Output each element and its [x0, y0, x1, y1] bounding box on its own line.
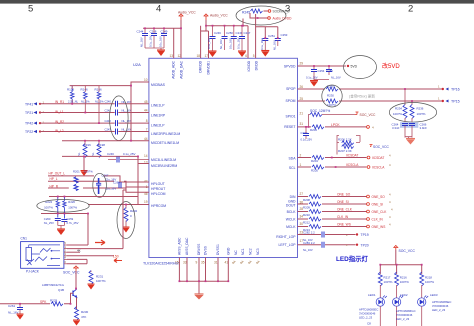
- capacitor C267 (series): [96, 174, 116, 195]
- svg-text:SOC_VCC: SOC_VCC: [399, 249, 416, 253]
- svg-text:LED_2_23: LED_2_23: [396, 317, 410, 321]
- resistor R230 emitter: [75, 307, 89, 321]
- svg-text:IICSDAT: IICSDAT: [346, 153, 358, 157]
- svg-text:LEFT_LOP: LEFT_LOP: [279, 243, 297, 247]
- svg-text:IN_R2: IN_R2: [55, 120, 64, 124]
- svg-text:LED3: LED3: [430, 293, 438, 297]
- svg-text:RIGHT_LOP: RIGHT_LOP: [276, 235, 296, 239]
- svg-text:C253: C253: [281, 33, 288, 37]
- annotation red arrow 2: [113, 255, 122, 263]
- svg-text:NC1: NC1: [241, 248, 245, 255]
- wire SPOP row: [298, 88, 443, 90]
- svg-text:IICSDAT: IICSDAT: [372, 156, 384, 160]
- ellipse highlight around C267: [93, 173, 107, 197]
- svg-text:27: 27: [300, 192, 304, 196]
- wire jack row C: [67, 251, 80, 253]
- svg-text:31: 31: [300, 122, 304, 126]
- svg-text:26: 26: [300, 85, 304, 89]
- annotation ellipse swap resistor: [236, 6, 292, 25]
- wire HPRCOM row: [88, 204, 149, 206]
- svg-text:29: 29: [300, 62, 304, 66]
- connector CN1 PJ-JACK: [21, 237, 64, 274]
- wire junctions: [19, 17, 423, 305]
- wire ground bus horizontal: [179, 280, 228, 282]
- svg-text:10K?%: 10K?%: [96, 279, 106, 283]
- svg-text:R212: R212: [303, 220, 310, 224]
- wire SPOM row: [298, 100, 443, 102]
- resistor R126: [67, 86, 79, 104]
- svg-text:4K: 4K: [77, 249, 81, 253]
- title bar: [0, 0, 474, 4]
- wire from annotation down to bank C: [243, 14, 256, 58]
- annotation ellipse 5VD: [344, 56, 377, 79]
- svg-text:C251: C251: [268, 34, 275, 38]
- svg-text:SOC_VCC: SOC_VCC: [63, 271, 80, 275]
- wire SOC_VCC down to Q1: [75, 271, 77, 289]
- svg-text:WCLK: WCLK: [286, 218, 297, 222]
- wire DOUT row: [298, 203, 367, 205]
- capacitor C250: [219, 26, 233, 50]
- jack pin numbers: [65, 241, 67, 264]
- svg-text:TP15: TP15: [451, 100, 460, 104]
- svg-text:HP_L: HP_L: [50, 177, 58, 181]
- svg-text:IOVDD: IOVDD: [247, 60, 251, 71]
- svg-text:R230: R230: [327, 94, 334, 98]
- capacitor C244: [137, 28, 149, 48]
- power label SOC_VCC (I2C): [370, 145, 390, 150]
- pin IICSCLA: [367, 163, 391, 170]
- bank C wires: [256, 27, 278, 38]
- pin ONE_CLK: [367, 208, 393, 215]
- resistor R234 (snubber): [393, 89, 407, 122]
- resistor R236 (snubber): [410, 101, 426, 122]
- pin CLK_IN: [367, 215, 391, 222]
- wire MICBIAS: [131, 82, 149, 141]
- wire pin GND down: [227, 258, 229, 282]
- resistor R216: [395, 272, 410, 298]
- svg-text:LMBT3904LT1G: LMBT3904LT1G: [42, 283, 65, 287]
- resistor R222 (SPOM): [326, 99, 338, 107]
- wire snubber join: [405, 137, 412, 139]
- capacitor C270 (snubber): [392, 122, 419, 137]
- svg-text:NL_16V: NL_16V: [122, 119, 132, 123]
- wire jack row E: [67, 258, 87, 260]
- svg-text:ONE_SO: ONE_SO: [372, 195, 386, 199]
- svg-text:47K: 47K: [81, 315, 86, 319]
- wire SPVDD to 5VD: [298, 65, 347, 67]
- svg-text:100?%: 100?%: [400, 280, 409, 284]
- svg-text:PJ-JACK: PJ-JACK: [26, 270, 40, 274]
- svg-text:9: 9: [196, 261, 198, 265]
- svg-text:TP21: TP21: [25, 111, 33, 115]
- svg-text:NC: NC: [234, 250, 238, 255]
- svg-text:NL_5%: NL_5%: [95, 100, 104, 104]
- resistor R166: [95, 86, 105, 124]
- svg-text:SOC_VCC: SOC_VCC: [360, 113, 377, 117]
- svg-text:SPK: SPK: [40, 300, 47, 304]
- svg-text:MCLK: MCLK: [286, 225, 296, 229]
- svg-text:100?%: 100?%: [68, 206, 77, 210]
- svg-text:100?%: 100?%: [417, 112, 426, 116]
- svg-text:Q1B: Q1B: [58, 288, 64, 292]
- capacitor C272 (snubber): [409, 122, 427, 137]
- pin ONE_WS: [367, 223, 391, 230]
- svg-text:RESET: RESET: [284, 125, 295, 129]
- svg-text:0.?u_25V: 0.?u_25V: [67, 221, 79, 225]
- ground R230: [73, 320, 80, 326]
- power label Audio_VCC (bank A): [178, 11, 196, 21]
- svg-text:R205: R205: [311, 169, 318, 173]
- LED2: [392, 293, 415, 326]
- resistor R209: [303, 202, 321, 209]
- svg-text:6: 6: [245, 54, 247, 58]
- svg-text:SPIO1: SPIO1: [286, 115, 296, 119]
- svg-text:18: 18: [196, 54, 200, 58]
- svg-text:100?%: 100?%: [384, 280, 393, 284]
- svg-text:DRVDD1: DRVDD1: [207, 61, 211, 75]
- annotation circle around speaker resistors: [322, 85, 342, 107]
- wire base row: [0, 303, 71, 305]
- svg-text:DVSS: DVSS: [204, 245, 208, 255]
- capacitor C251: [260, 34, 276, 51]
- svg-text:DOUT: DOUT: [286, 204, 296, 208]
- svg-text:MICBIAS: MICBIAS: [151, 83, 166, 87]
- svg-text:NL_16V: NL_16V: [331, 76, 341, 80]
- capacitor C262 (reset): [301, 127, 313, 142]
- annotation ellipse around R234/R236: [389, 103, 436, 123]
- svg-text:33: 33: [183, 261, 187, 265]
- svg-text:R206 2.2K: R206 2.2K: [338, 137, 352, 141]
- wire MCLK row: [298, 226, 367, 228]
- svg-text:21: 21: [300, 112, 304, 116]
- wire caps join: [314, 80, 329, 81]
- svg-text:SODIMM_D: SODIMM_D: [273, 10, 291, 14]
- wire SCL row: [298, 166, 367, 168]
- power label SOC_VCC (jack area): [63, 266, 80, 275]
- svg-text:25: 25: [300, 97, 304, 101]
- svg-text:R146: R146: [81, 87, 89, 91]
- capacitor C282 row (RIGHT_LOP): [298, 231, 369, 242]
- svg-text:C246: C246: [107, 152, 114, 156]
- ground snubber: [406, 139, 415, 145]
- svg-text:2: 2: [300, 154, 302, 158]
- svg-text:IN_R1: IN_R1: [55, 100, 64, 104]
- resistor R213: [303, 225, 321, 232]
- IC top pin names (vertical): [172, 60, 259, 78]
- svg-text:NL_16V: NL_16V: [122, 108, 132, 112]
- capacitor C249b: [228, 26, 243, 50]
- svg-text:R203: R203: [310, 128, 317, 132]
- svg-text:GND: GND: [226, 247, 230, 255]
- resistor R212: [303, 217, 321, 224]
- svg-text:R210: R210: [303, 213, 310, 217]
- ground bank B left: [209, 51, 217, 57]
- svg-text:ONE_SO: ONE_SO: [337, 192, 351, 196]
- svg-text:MICDET/LINE1LM: MICDET/LINE1LM: [151, 141, 179, 145]
- svg-text:SPOM: SPOM: [286, 99, 296, 103]
- resistor R232 pulldown: [124, 205, 138, 228]
- ellipse highlight around mic resistors: [37, 200, 89, 213]
- ground bus under IC: [179, 258, 228, 295]
- wire HPL row: [48, 176, 149, 182]
- svg-text:NL_16V: NL_16V: [272, 40, 276, 50]
- svg-text:R166: R166: [95, 87, 103, 91]
- svg-text:R126: R126: [67, 87, 75, 91]
- svg-text:CN1: CN1: [21, 237, 28, 241]
- ground bank C: [261, 51, 269, 57]
- svg-text:NL_16V: NL_16V: [140, 37, 144, 47]
- pin LPCK: [367, 125, 374, 129]
- resistor R220 (SPOP): [326, 85, 338, 98]
- svg-text:C246: C246: [214, 31, 221, 35]
- LED3: [418, 293, 452, 326]
- svg-text:22u_16V: 22u_16V: [105, 187, 116, 191]
- wire micbias pullup bus: [70, 85, 131, 87]
- svg-text:LINE2LP: LINE2LP: [151, 124, 165, 128]
- svg-text:NL: NL: [91, 152, 95, 156]
- svg-text:TP22: TP22: [25, 130, 33, 134]
- svg-text:5VD: 5VD: [351, 65, 358, 69]
- svg-text:C240: C240: [105, 100, 112, 104]
- wire bus to ground: [198, 281, 200, 294]
- resistor R218: [420, 272, 435, 298]
- wire bias row: [62, 140, 149, 142]
- svg-text:HPLCOM: HPLCOM: [151, 192, 166, 196]
- svg-text:L50: L50: [113, 255, 119, 259]
- resistor R229 on base: [40, 299, 63, 306]
- svg-text:R245: R245: [242, 11, 250, 15]
- svg-text:R226: R226: [68, 200, 75, 204]
- transistor Q1 LMBT3904LT1G: [42, 283, 77, 309]
- svg-text:NL_16V: NL_16V: [303, 248, 313, 252]
- ground R232: [123, 227, 130, 233]
- wire jack row B: [67, 190, 126, 249]
- svg-text:LED2: LED2: [400, 293, 408, 297]
- svg-text:TP42: TP42: [25, 122, 33, 126]
- svg-text:C254: C254: [318, 69, 325, 73]
- resistor R202: [73, 169, 93, 190]
- resistor R204 (SDA): [311, 156, 324, 164]
- svg-text:17: 17: [204, 54, 208, 58]
- svg-text:ONE_WS: ONE_WS: [372, 225, 386, 229]
- wire HPR row: [48, 181, 149, 187]
- svg-text:Audio_DVDD: Audio_DVDD: [273, 17, 293, 21]
- svg-text:LINE1LP: LINE1LP: [151, 103, 165, 107]
- svg-text:DVDD: DVDD: [254, 60, 258, 70]
- resistor R217: [378, 272, 393, 298]
- wire mic bus: [41, 213, 88, 215]
- svg-text:C247: C247: [244, 31, 251, 35]
- wire pin DRVSS down: [198, 258, 200, 282]
- pin ONE_SO: [367, 193, 391, 200]
- IC left pin name labels: [151, 83, 180, 208]
- svg-text:Audio_VCC: Audio_VCC: [178, 11, 196, 15]
- capacitor C259: [61, 217, 78, 226]
- svg-text:C248: C248: [150, 30, 157, 34]
- capacitor C253: [272, 33, 288, 50]
- svg-text:R217: R217: [384, 276, 391, 280]
- resistor R146: [81, 86, 91, 113]
- wire jack row D: [67, 255, 114, 257]
- svg-text:0.1u_16V: 0.1u_16V: [260, 38, 264, 50]
- wire caps to ground: [58, 226, 65, 230]
- svg-text:IICSCLA: IICSCLA: [372, 166, 385, 170]
- IC top pin numbers: [169, 54, 254, 58]
- svg-text:+: +: [346, 243, 348, 247]
- svg-text:R204: R204: [311, 159, 318, 163]
- power label SOC_VCC (reset): [355, 112, 376, 117]
- svg-text:NL_25V: NL_25V: [44, 221, 54, 225]
- capacitor C246: [207, 26, 221, 50]
- wire mic row top: [49, 196, 104, 198]
- svg-text:R231: R231: [96, 275, 104, 279]
- svg-text:31: 31: [214, 261, 218, 265]
- svg-text:1: 1: [300, 163, 302, 167]
- ground R231: [88, 284, 95, 290]
- svg-text:TP16: TP16: [451, 88, 460, 92]
- svg-text:LED指示灯: LED指示灯: [336, 254, 369, 263]
- capacitor C256 (SPVDD): [326, 66, 341, 80]
- ground bank A: [157, 50, 165, 56]
- svg-text:U2A: U2A: [133, 62, 141, 67]
- svg-text:HPROUT: HPROUT: [151, 187, 165, 191]
- svg-text:35: 35: [201, 261, 205, 265]
- svg-text:15: 15: [175, 261, 179, 265]
- test point TP22 row: [25, 127, 149, 134]
- wire RESET row to LPCK: [298, 126, 367, 128]
- svg-text:5: 5: [253, 54, 255, 58]
- svg-text:8: 8: [146, 119, 148, 123]
- svg-text:ONE_CLK: ONE_CLK: [372, 210, 388, 214]
- ellipse highlight around R232: [117, 202, 135, 239]
- svg-text:AVDD_DAC: AVDD_DAC: [180, 60, 184, 78]
- capacitor C247: [237, 26, 251, 50]
- svg-text:C256: C256: [326, 69, 333, 73]
- svg-text:2: 2: [408, 4, 413, 15]
- wire bank A vertical to pin: [143, 20, 181, 58]
- svg-text:Audio_VCC: Audio_VCC: [210, 14, 228, 18]
- svg-text:2.2K_NL: 2.2K_NL: [68, 100, 79, 104]
- resistor R224 (mic pair): [44, 197, 59, 218]
- svg-text:R236: R236: [417, 107, 424, 111]
- ground bias: [81, 171, 88, 177]
- svg-text:SCL: SCL: [289, 166, 296, 170]
- svg-text:C242: C242: [105, 119, 112, 123]
- wire WCLK row: [298, 218, 367, 220]
- ground caps: [57, 229, 65, 235]
- svg-text:DRVSS: DRVSS: [197, 243, 201, 255]
- power label Audio_VCC (bank B): [204, 14, 229, 21]
- svg-text:0.1u_25V: 0.1u_25V: [301, 138, 313, 142]
- svg-text:0.1u_25V: 0.1u_25V: [123, 152, 135, 156]
- svg-text:SOC_12M?%: SOC_12M?%: [310, 109, 330, 113]
- wire to pin SODIMM: [264, 10, 269, 12]
- test point TP16: [438, 85, 460, 92]
- test point TP21 row: [25, 108, 149, 115]
- pin IICSDAT: [367, 154, 391, 161]
- svg-text:C8: C8: [367, 322, 371, 326]
- svg-text:3.9nF: 3.9nF: [420, 126, 428, 130]
- IC bottom pin names (vertical): [178, 237, 261, 255]
- svg-text:(金帝R5xx) 更新: (金帝R5xx) 更新: [349, 94, 375, 99]
- svg-text:LINE2RP/LINE2LM: LINE2RP/LINE2LM: [151, 132, 180, 136]
- capacitor C260: [44, 217, 61, 226]
- svg-text:IN_L2: IN_L2: [55, 129, 64, 133]
- annotation red arrow 1: [95, 240, 105, 245]
- LED1: [359, 293, 387, 326]
- svg-text:TP19: TP19: [361, 233, 369, 237]
- resistor R208: [303, 195, 321, 202]
- svg-text:DVSS1: DVSS1: [216, 244, 220, 255]
- svg-text:NL_16V: NL_16V: [219, 39, 223, 49]
- svg-text:NC3: NC3: [256, 248, 260, 255]
- wire bank B grounds: [213, 50, 243, 51]
- svg-text:ONE_CLK: ONE_CLK: [337, 207, 353, 211]
- svg-text:5: 5: [28, 4, 33, 15]
- resistor R196: [77, 141, 91, 158]
- test point TP15: [438, 97, 460, 104]
- svg-text:ONE_WS: ONE_WS: [337, 222, 351, 226]
- svg-text:NL: NL: [77, 152, 81, 156]
- svg-text:100?%: 100?%: [44, 206, 53, 210]
- resistor R231: [89, 271, 106, 285]
- jack pin stubs: [64, 245, 67, 264]
- svg-text:ONE_SI: ONE_SI: [337, 200, 349, 204]
- svg-text:DRVDD: DRVDD: [199, 60, 203, 72]
- ground C261: [17, 314, 24, 320]
- svg-text:100?%: 100?%: [84, 169, 93, 173]
- wire BCLK row: [298, 211, 367, 213]
- wire bank B: [201, 20, 248, 58]
- svg-text:0.1u_16V: 0.1u_16V: [306, 76, 318, 80]
- svg-text:R201: R201: [73, 169, 80, 173]
- svg-text:3.3nF: 3.3nF: [392, 126, 400, 130]
- svg-text:改5VD: 改5VD: [382, 62, 400, 70]
- svg-text:100?%: 100?%: [393, 112, 402, 116]
- svg-text:R218: R218: [425, 276, 432, 280]
- svg-text:C244: C244: [137, 30, 144, 34]
- svg-text:SPOP: SPOP: [286, 87, 296, 91]
- svg-text:C261: C261: [8, 304, 16, 308]
- svg-text:CLK_IN: CLK_IN: [337, 215, 349, 219]
- svg-text:R216: R216: [400, 276, 407, 280]
- svg-text:0.1u_16V: 0.1u_16V: [149, 35, 153, 47]
- svg-text:10: 10: [144, 78, 148, 82]
- svg-text:41: 41: [225, 261, 229, 265]
- resistor R210: [303, 210, 321, 217]
- resistor R207: [338, 145, 354, 154]
- svg-text:MIC3R/LINE2RM: MIC3R/LINE2RM: [151, 164, 177, 168]
- svg-text:CLK_IN: CLK_IN: [372, 218, 384, 222]
- ground bank B right: [238, 51, 246, 57]
- svg-text:LPCK: LPCK: [331, 123, 340, 127]
- svg-text:SOC_VCC: SOC_VCC: [373, 145, 390, 149]
- I2C pullup loop wires: [337, 136, 360, 155]
- svg-text:+: +: [346, 233, 348, 237]
- capacitor C248: [149, 28, 158, 48]
- capacitor C283 row (LEFT_LOP): [298, 241, 369, 252]
- svg-text:MIC3L/LINE2LM: MIC3L/LINE2LM: [151, 158, 176, 162]
- test point TP42 row: [25, 119, 149, 126]
- capacitor C254 (SPVDD): [306, 66, 325, 80]
- capacitor C261: [8, 304, 23, 315]
- svg-text:LED_2_23: LED_2_23: [359, 316, 373, 320]
- wire pin AVSS_ADC down: [178, 258, 180, 282]
- resistor R214 (reset pullup): [309, 113, 356, 127]
- svg-text:SPVDD: SPVDD: [284, 65, 296, 69]
- svg-text:19: 19: [144, 200, 148, 204]
- svg-text:HP_OUT_L: HP_OUT_L: [49, 172, 66, 176]
